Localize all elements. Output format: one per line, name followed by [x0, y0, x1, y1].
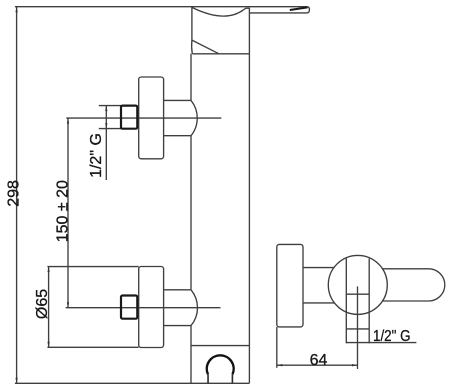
lower hub top — [164, 289, 192, 291]
upper hub boss arc — [191, 100, 197, 135]
arrow D65 bottom — [47, 342, 49, 348]
svg-text:1/2" G: 1/2" G — [373, 328, 411, 345]
neck diagonal long — [192, 40, 219, 54]
svg-text:Ø65: Ø65 — [34, 289, 51, 319]
lower wall flange — [139, 267, 164, 348]
dimension 298 line — [16, 7, 18, 384]
svg-text:150 ± 20: 150 ± 20 — [54, 180, 71, 242]
lever handle (side view) — [192, 7, 309, 13]
dimension half-inch extension lines — [99, 106, 121, 129]
arrow 298 top — [15, 7, 17, 13]
dimension D65 line — [48, 267, 50, 348]
dimension 64 left extension — [276, 327, 278, 368]
outlet tube right edge — [368, 259, 370, 344]
body bottom line with 298 extension — [15, 382, 250, 384]
upper hub top — [164, 99, 192, 101]
body left edge segments — [190, 54, 192, 384]
neck diagonal short — [191, 40, 194, 54]
dimension 150 line — [67, 118, 69, 308]
front view neck top — [303, 267, 334, 269]
front view neck bottom — [303, 302, 334, 304]
cartridge cap arc — [192, 8, 243, 17]
outlet bottom — [346, 342, 416, 344]
svg-text:64: 64 — [310, 352, 328, 369]
bottom block divider — [191, 345, 249, 347]
dimension 64 line — [277, 364, 358, 366]
dimension 64 right extension centerline — [357, 286, 359, 369]
svg-text:1/2" G: 1/2" G — [88, 133, 105, 178]
dimension 298 extension line top — [15, 6, 192, 8]
dimension D65 extension lines — [47, 267, 138, 348]
cap step — [244, 8, 250, 13]
shower hook arch legs — [208, 374, 232, 383]
arrow 150 top — [67, 118, 69, 124]
tube shoulder line — [192, 53, 249, 55]
dimension half-inch line with leader — [105, 106, 107, 180]
arrow D65 top — [47, 267, 49, 273]
lever tip mark — [290, 7, 308, 10]
front view wall flange — [277, 244, 303, 327]
arrow half-inch top — [105, 106, 107, 112]
arrow 64 right — [352, 364, 358, 366]
front view handle capsule — [383, 269, 445, 301]
arrow half-inch bottom — [105, 123, 107, 129]
lower hub bottom — [164, 325, 192, 327]
outlet internal line — [346, 293, 369, 295]
lower connection nut — [121, 296, 137, 319]
shower hook arch — [207, 355, 234, 374]
lower hub boss arc — [191, 290, 197, 326]
upper centerline — [66, 117, 221, 119]
outlet tube left edge — [345, 258, 347, 343]
arrow 298 bottom — [15, 378, 17, 384]
svg-text:298: 298 — [5, 180, 22, 207]
body top-left edge — [191, 7, 193, 40]
upper connection nut — [121, 106, 137, 129]
lower centerline — [66, 307, 221, 309]
arrow 150 bottom — [67, 302, 69, 308]
body right edge — [248, 13, 250, 383]
outlet thread line — [346, 328, 369, 330]
front view body circle — [328, 255, 387, 314]
upper wall flange — [139, 77, 164, 159]
arrow 64 left — [277, 364, 283, 366]
upper hub bottom — [164, 135, 192, 137]
